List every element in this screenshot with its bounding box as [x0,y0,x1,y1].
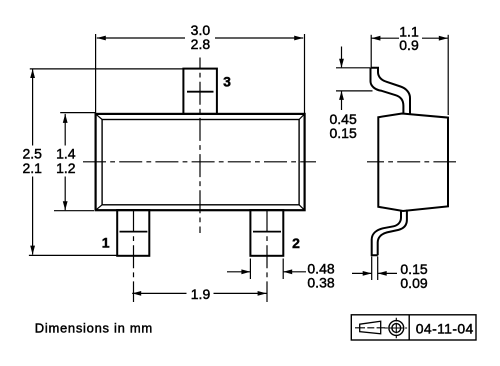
dimension 0.48/0.38 extension line left [249,259,251,280]
dimension 0.15/0.09 extension line right [377,257,379,281]
svg-text:0.9: 0.9 [399,37,419,53]
node top-view vertical centerline [199,58,201,234]
body corner chamfer top-right [299,114,305,120]
body corner chamfer bottom-left [96,205,103,210]
side view horizontal centerline [367,161,456,163]
dimension 3.0/2.8 extension line right [304,34,306,113]
body corner chamfer top-left [96,114,103,120]
projection symbol circle outer [389,321,404,336]
dimension 0.45/0.15 extension line top [336,67,370,69]
node pin2 centerline [266,209,268,302]
projection symbol cone centerline [355,327,385,329]
svg-text:0.09: 0.09 [400,275,427,291]
package body outer outline (top view) [96,114,305,210]
projection symbol cone [360,321,381,334]
dimension 2.5/2.1 extension line bottom [29,254,117,256]
dimension 1.1/0.9 extension line right [447,35,449,115]
dimension 0.48/0.38 extension line right [282,259,284,280]
dimension 1.4/1.2 line [64,114,66,146]
projection symbol circle crosshair horizontal [384,327,407,329]
dimension 0.45/0.15 extension line bottom [336,90,373,92]
svg-text:1.2: 1.2 [56,160,76,176]
dimension 1.4/1.2 extension line top [60,112,95,114]
node pin1 centerline [133,209,135,302]
dimension 3.0/2.8 extension line left [95,34,97,113]
pin 2 lead cut mark [253,231,281,233]
svg-text:2.8: 2.8 [191,36,211,52]
svg-text:Dimensions in mm: Dimensions in mm [35,321,153,336]
svg-text:04-11-04: 04-11-04 [416,320,474,336]
svg-text:2.1: 2.1 [22,160,42,176]
side view bottom lead [378,210,407,255]
dimension 1.9 line [132,292,186,294]
pin 3 lead (top) [183,69,217,114]
side view body [378,114,448,212]
pin 2 lead (bottom-right) [250,210,283,256]
dimension 0.48/0.38 arrows [227,271,250,273]
side view top lead [371,68,411,114]
dimension 1.1/0.9 line [371,37,399,39]
package body inner outline (top view) [102,120,299,205]
svg-text:1.9: 1.9 [191,286,211,302]
dimension 0.45/0.15 arrows [341,47,343,68]
dimension 0.15/0.09 arrows [352,272,371,274]
projection symbol circle inner [392,324,401,333]
pin 1 lead cut mark [120,231,148,233]
body corner chamfer bottom-right [299,205,305,210]
title block divider [408,315,410,340]
dimension 1.4/1.2 extension line bottom [54,210,94,212]
svg-text:1: 1 [102,235,110,251]
pin 3 lead cut mark [187,91,214,93]
dimension 1.1/0.9 extension line left [370,35,372,67]
dimension 3.0/2.8 line [97,37,185,39]
node top-view horizontal centerline [83,161,316,163]
projection symbol circle crosshair vertical [395,318,397,338]
svg-text:0.15: 0.15 [330,125,357,141]
dimension 2.5/2.1 extension line top [30,68,184,70]
pin 1 lead (bottom-left) [117,210,149,256]
dimension 0.15/0.09 extension line left [371,257,373,281]
svg-text:2: 2 [292,235,300,251]
svg-text:3: 3 [223,74,231,90]
title block outer box [351,315,476,340]
svg-text:0.38: 0.38 [307,275,334,291]
dimension 2.5/2.1 line [32,69,34,146]
